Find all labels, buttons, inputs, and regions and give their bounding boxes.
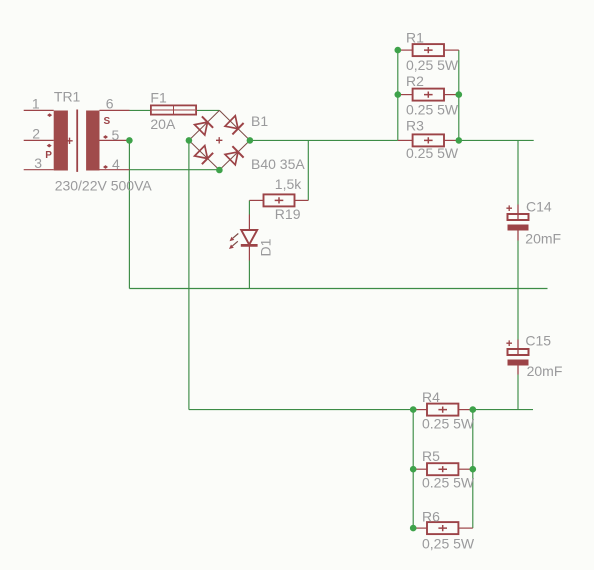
node: junction dot bridge bottom corner: [216, 167, 223, 174]
wire: vertical from TR1 pin5 junction down to mid rail: [128, 140, 130, 288]
node: junction dot R3 right: [456, 137, 463, 144]
fuse F1: [151, 105, 196, 114]
resistor R19: [249, 194, 308, 206]
node: junction dot R2 right: [456, 91, 463, 98]
wire: right rail of R4 R5 R6: [472, 410, 474, 528]
B1 diode top-right: [225, 115, 244, 134]
svg-text:R6: R6: [422, 508, 440, 524]
resistor R5: [413, 463, 473, 475]
wire: vertical from main rail down to R19 right pin: [307, 140, 309, 200]
node: junction dot R4 left: [410, 406, 417, 413]
wire: net from TR1 pin4 to bridge bottom corner: [130, 169, 220, 171]
TR1 pin 1 diamond: [47, 113, 52, 117]
TR1 pin 5 diamond: [103, 135, 108, 139]
svg-text:F1: F1: [150, 89, 167, 105]
svg-text:4: 4: [112, 156, 120, 172]
TR1 pin 4: [100, 169, 130, 171]
svg-text:R3: R3: [406, 117, 424, 133]
capacitor C14: [506, 205, 528, 241]
resistor R2: [398, 89, 459, 101]
node: junction dot R5 right: [470, 466, 477, 473]
svg-text:20mF: 20mF: [525, 230, 561, 246]
TR1 pin 4 diamond: [103, 165, 108, 169]
svg-text:B1: B1: [251, 113, 268, 129]
B1 diode bottom-right: [225, 146, 244, 165]
wire: net from R19 left corner down to LED D1 top pin: [248, 200, 250, 214]
svg-text:0.25 5W: 0.25 5W: [422, 415, 475, 431]
svg-text:0,25 5W: 0,25 5W: [406, 57, 459, 73]
svg-text:B40 35A: B40 35A: [251, 156, 305, 172]
TR1 pin 6: [100, 109, 130, 111]
transformer TR1: [45, 110, 110, 172]
B1 diode top-left: [194, 116, 213, 135]
svg-text:D1: D1: [258, 238, 274, 256]
svg-text:1,5k: 1,5k: [275, 176, 302, 192]
node: junction dot bridge left corner: [186, 137, 193, 144]
svg-text:R4: R4: [422, 389, 440, 405]
resistor R6: [413, 522, 473, 534]
wire: mid horizontal rail (center tap): [129, 288, 547, 290]
wire: main positive rail from R3 right to stub end: [459, 139, 534, 141]
wire: left rail of R1 R2 R3: [397, 50, 399, 140]
wire: vertical from C15 bottom to bottom rail: [517, 375, 519, 410]
TR1 pin 1: [24, 109, 54, 111]
wire: left rail of R4 R5 R6: [412, 410, 414, 528]
svg-text:S: S: [104, 116, 111, 127]
node: junction dot R4 right: [470, 406, 477, 413]
svg-text:0,25 5W: 0,25 5W: [422, 535, 475, 551]
wire: vertical from C14 bottom to C15 top: [517, 241, 519, 340]
node: junction dot bridge right corner: [247, 137, 254, 144]
wire: vertical from bridge left corner down to bottom rail: [188, 140, 190, 409]
capacitor C15: [506, 340, 528, 375]
wire: vertical from main rail down to C14 top: [517, 140, 519, 204]
node: junction dot R1 left: [395, 47, 402, 54]
wire: bottom rail from R4 right junction to stub end: [473, 409, 533, 411]
svg-text:3: 3: [34, 155, 42, 171]
B1 diode bottom-left: [194, 145, 213, 164]
resistor R4: [413, 404, 473, 416]
svg-text:20A: 20A: [150, 116, 176, 132]
wire: bottom rail from left vertical to R4 left junction: [189, 409, 413, 411]
wire: net from fuse F1 to bridge top corner: [196, 109, 219, 111]
B1 center plus mark: [216, 137, 222, 143]
svg-text:P: P: [45, 150, 52, 161]
TR1 pin 2: [24, 139, 54, 141]
resistor R3: [398, 134, 459, 146]
TR1 pin 2 diamond: [47, 144, 52, 148]
svg-text:R19: R19: [275, 206, 301, 222]
svg-text:0.25 5W: 0.25 5W: [422, 475, 475, 491]
svg-text:C15: C15: [525, 332, 551, 348]
LED D1: [229, 215, 258, 261]
svg-text:R5: R5: [422, 448, 440, 464]
svg-text:2: 2: [32, 125, 40, 141]
TR1 pin 5: [100, 139, 130, 141]
wire: main positive rail from bridge right corner to R3 left rail: [250, 139, 398, 141]
svg-text:1: 1: [32, 95, 40, 111]
svg-text:5: 5: [112, 127, 120, 143]
wire: right rail of R1 R2 R3: [458, 50, 460, 140]
node: junction dot R5 left: [410, 466, 417, 473]
svg-text:0.25 5W: 0.25 5W: [406, 102, 459, 118]
svg-text:TR1: TR1: [54, 88, 81, 104]
TR1 pin 3: [24, 169, 54, 171]
bridge rectifier B1 diamond outline: [189, 110, 250, 170]
node: junction dot at TR1 pin5: [126, 137, 133, 144]
svg-text:6: 6: [106, 95, 114, 111]
svg-text:0.25 5W: 0.25 5W: [406, 145, 459, 161]
svg-text:R2: R2: [406, 73, 424, 89]
svg-text:R1: R1: [406, 30, 424, 46]
wire: net from TR1 pin6 to fuse F1: [130, 109, 152, 111]
node: junction dot R2 left: [395, 91, 402, 98]
svg-text:20mF: 20mF: [527, 363, 563, 379]
node: junction dot R6 left: [410, 525, 417, 532]
svg-text:C14: C14: [526, 198, 552, 214]
wire: net from LED D1 bottom pin to mid rail: [248, 261, 250, 289]
svg-text:230/22V 500VA: 230/22V 500VA: [55, 177, 153, 193]
resistor R1: [398, 44, 459, 56]
